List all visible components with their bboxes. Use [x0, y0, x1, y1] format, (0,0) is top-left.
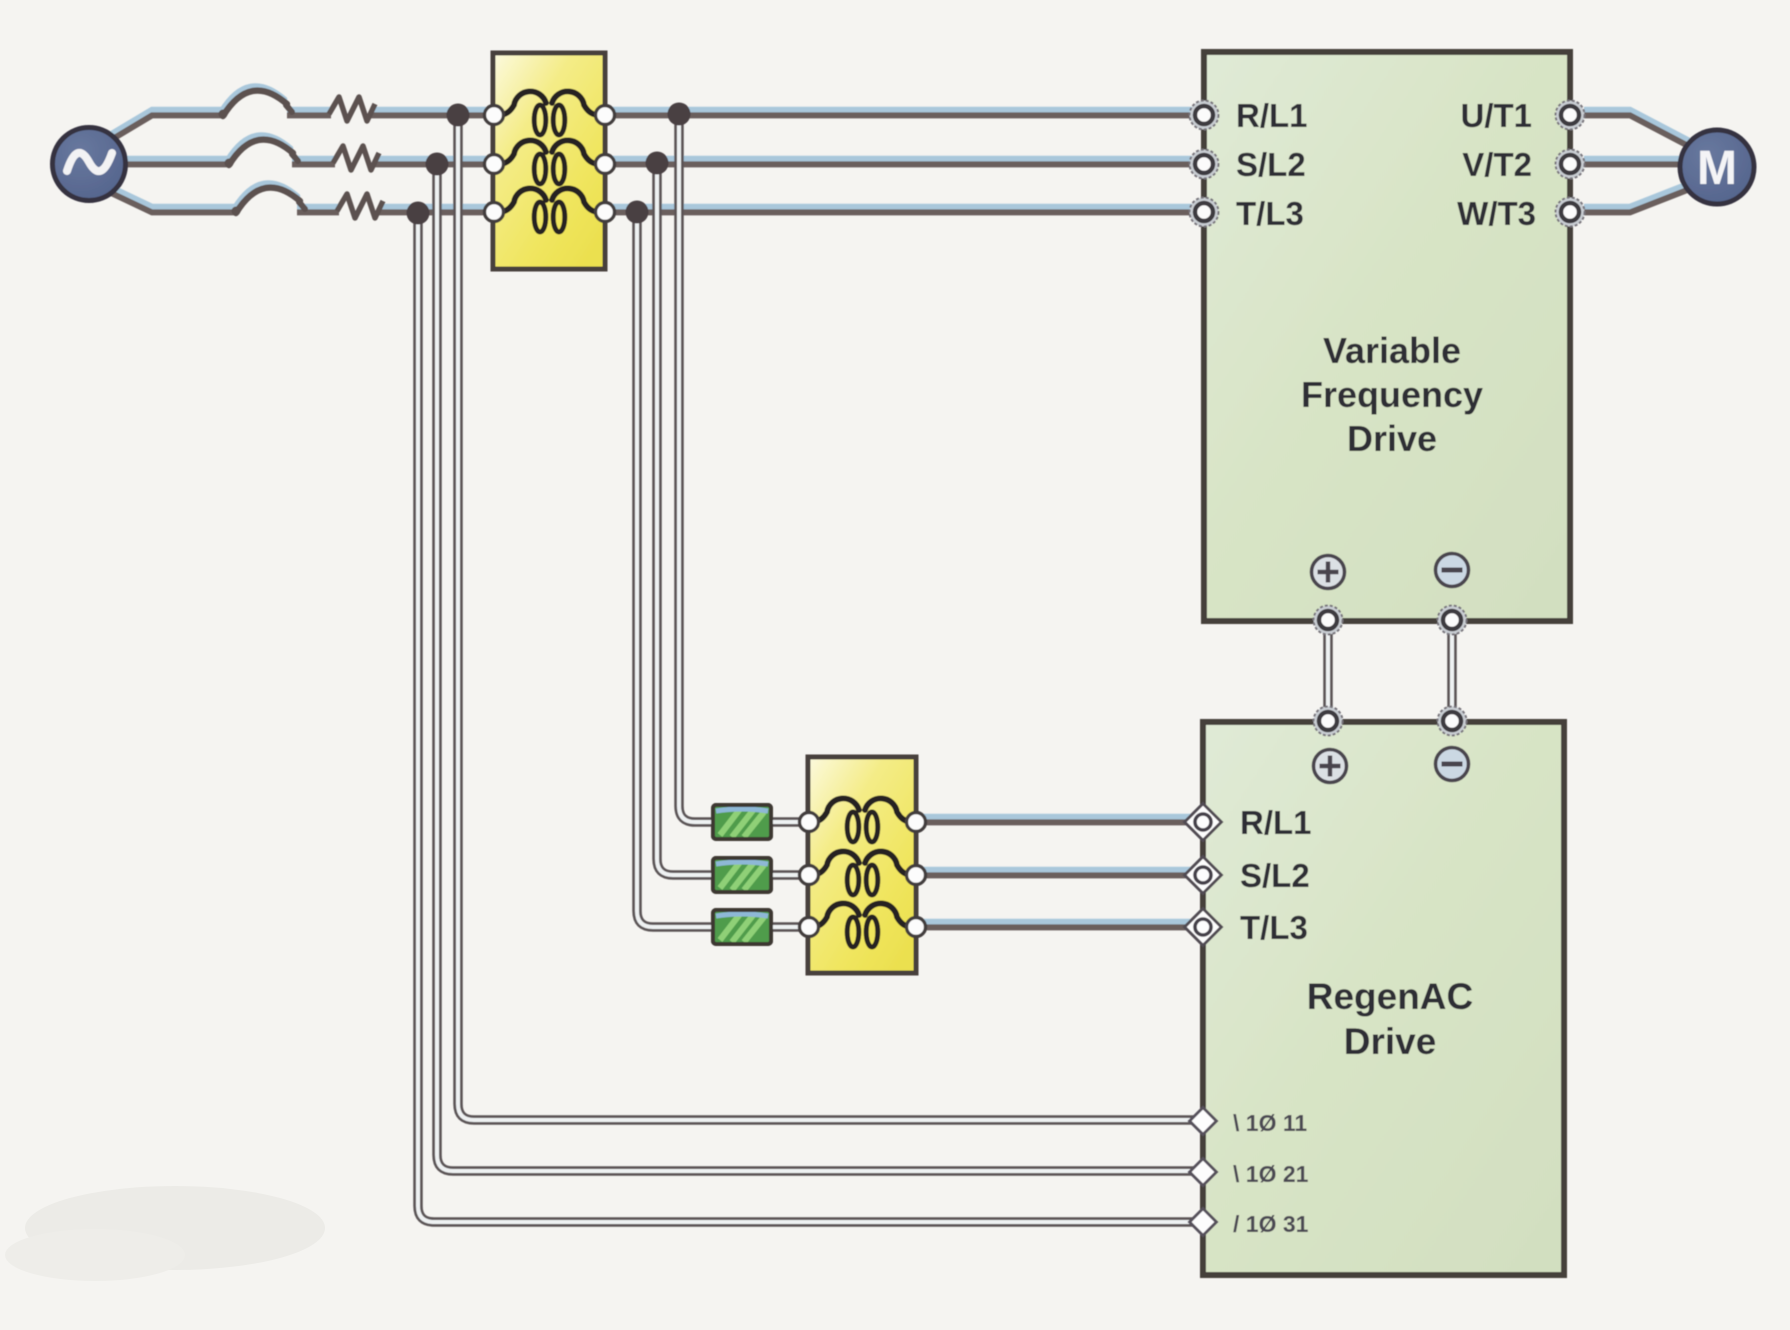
svg-text:Frequency: Frequency	[1301, 374, 1483, 415]
svg-text:\ 1Ø 11: \ 1Ø 11	[1233, 1110, 1307, 1136]
svg-text:T/L3: T/L3	[1240, 909, 1308, 946]
svg-text:U/T1: U/T1	[1460, 97, 1532, 134]
svg-text:M: M	[1697, 142, 1737, 195]
svg-text:W/T3: W/T3	[1457, 195, 1536, 232]
svg-text:V/T2: V/T2	[1462, 146, 1532, 183]
svg-text:S/L2: S/L2	[1236, 146, 1306, 183]
svg-text:Drive: Drive	[1347, 418, 1437, 459]
svg-text:R/L1: R/L1	[1240, 804, 1312, 841]
svg-text:Variable: Variable	[1323, 330, 1461, 371]
svg-text:\ 1Ø 21: \ 1Ø 21	[1233, 1161, 1309, 1187]
svg-text:R/L1: R/L1	[1236, 97, 1308, 134]
svg-text:T/L3: T/L3	[1236, 195, 1304, 232]
svg-text:/ 1Ø 31: / 1Ø 31	[1233, 1211, 1309, 1237]
svg-text:S/L2: S/L2	[1240, 857, 1310, 894]
svg-text:RegenAC: RegenAC	[1307, 976, 1474, 1017]
svg-text:Drive: Drive	[1344, 1021, 1437, 1062]
